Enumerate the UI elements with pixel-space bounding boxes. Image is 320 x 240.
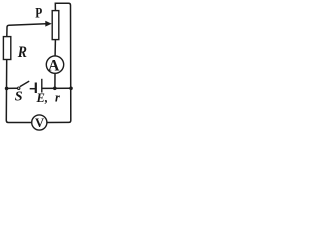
svg-text:A: A — [48, 57, 60, 74]
svg-text:R: R — [17, 44, 27, 61]
svg-text:P: P — [35, 6, 42, 22]
svg-text:E, r: E, r — [36, 90, 60, 105]
svg-text:V: V — [35, 116, 44, 130]
svg-text:S: S — [15, 90, 23, 105]
